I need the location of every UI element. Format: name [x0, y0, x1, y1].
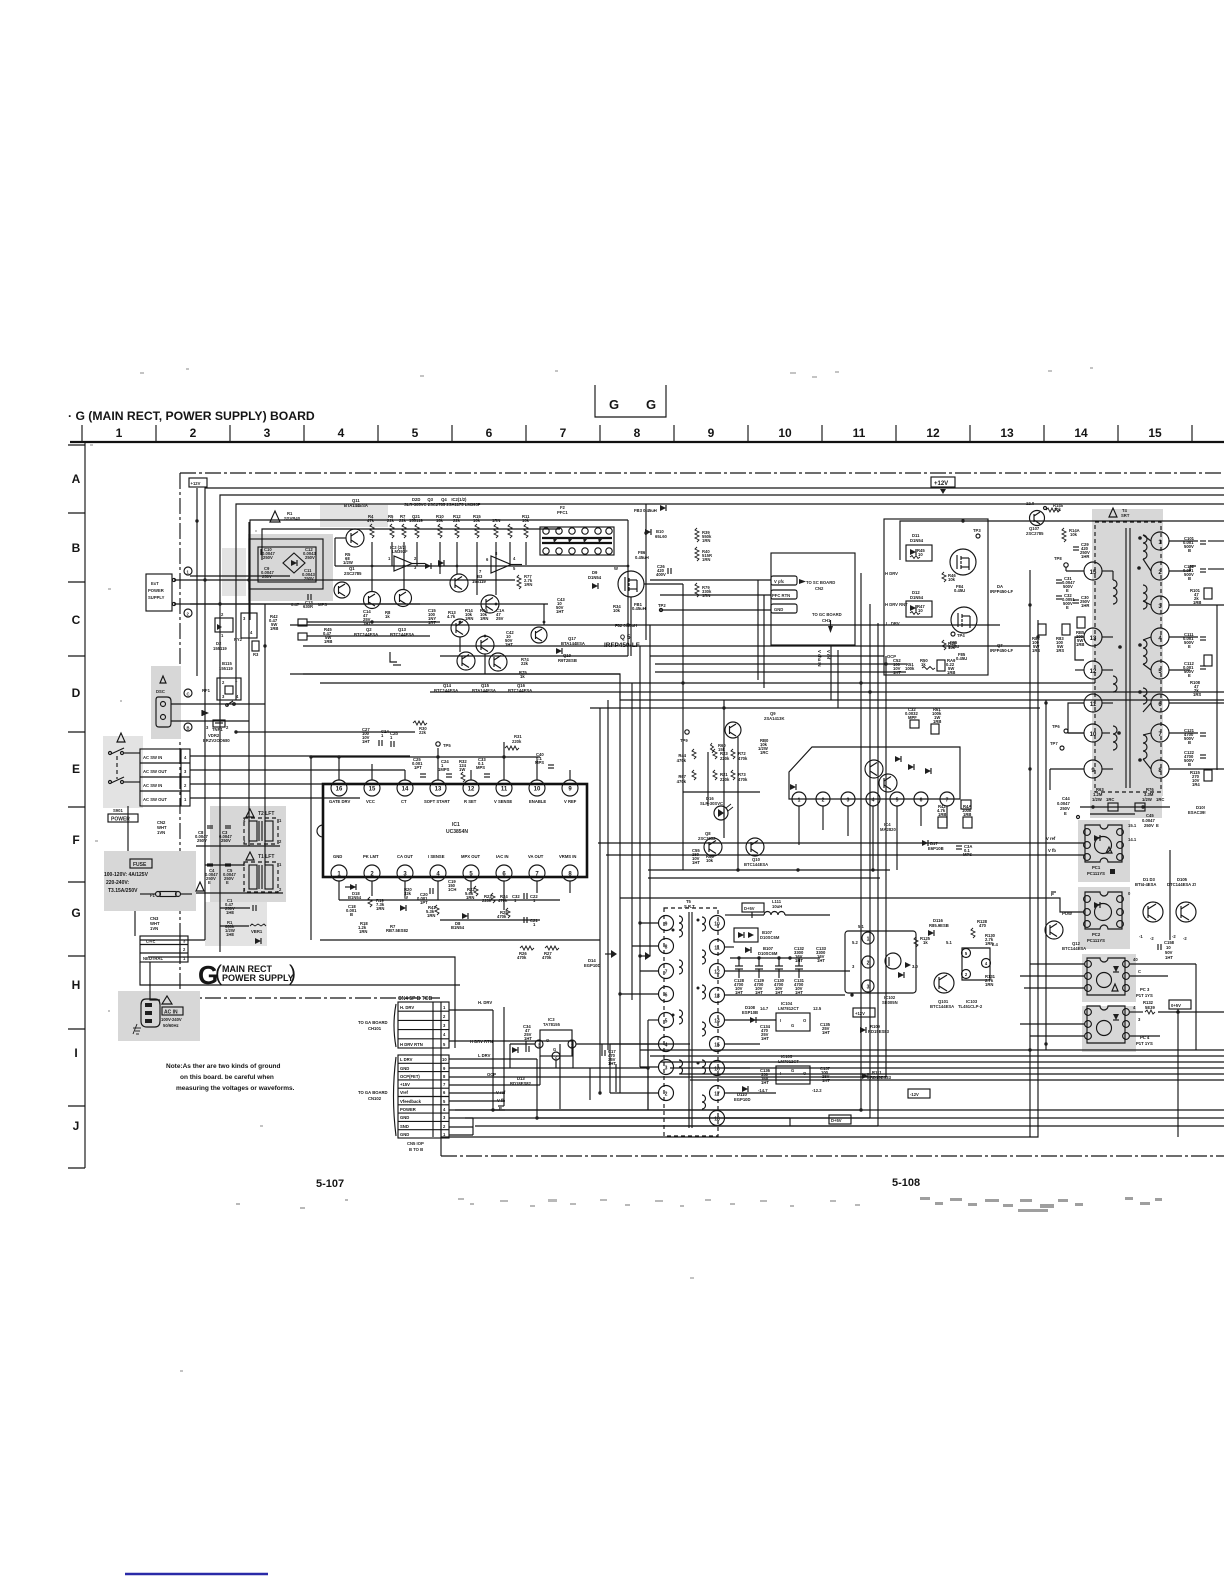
- svg-text:12.0: 12.0: [1026, 501, 1035, 506]
- svg-text:18k: 18k: [436, 518, 444, 523]
- transistor Q12 BTC144ESA: [1045, 921, 1086, 951]
- svg-text:22k: 22k: [453, 518, 461, 523]
- regulator IC103 TL451CLP-2: [946, 940, 998, 1009]
- svg-text:B: B: [1188, 548, 1191, 553]
- svg-text:1MPS: 1MPS: [438, 767, 450, 772]
- diode at T5 left: [640, 952, 651, 960]
- svg-text:E: E: [226, 880, 229, 885]
- wire secondary rails: [725, 915, 850, 1126]
- svg-text:50/60Hz: 50/60Hz: [163, 1023, 179, 1028]
- svg-text:10: 10: [918, 608, 923, 613]
- resistor R77: [517, 574, 533, 589]
- svg-text:W: W: [404, 895, 408, 900]
- capacitor C27 C26 above IC1: [362, 727, 398, 747]
- capacitor C5: [223, 864, 236, 885]
- svg-text:10: 10: [442, 1057, 447, 1062]
- ground stub: [390, 652, 401, 665]
- svg-text:2: 2: [665, 1092, 668, 1098]
- svg-text:PK LMT: PK LMT: [363, 854, 379, 859]
- svg-text:1RB: 1RB: [270, 626, 278, 631]
- diode D18 B1N54: [348, 884, 362, 900]
- node C circled: [184, 689, 192, 697]
- svg-text:22k: 22k: [521, 661, 529, 666]
- svg-text:1HE: 1HE: [226, 910, 234, 915]
- svg-text:D: D: [72, 686, 81, 700]
- svg-text:V fb: V fb: [1048, 848, 1056, 853]
- svg-text:I: I: [780, 1018, 781, 1023]
- resistor R30: [413, 721, 427, 735]
- IC1 top pin labels: [329, 799, 577, 804]
- svg-text:R85.9ESB: R85.9ESB: [929, 923, 949, 928]
- MOSFET Q7: [951, 607, 977, 633]
- label +12V right: [931, 477, 955, 494]
- svg-text:TL451CLP-2: TL451CLP-2: [958, 1004, 983, 1009]
- capacitor C12: [303, 547, 316, 560]
- svg-text:470k: 470k: [738, 777, 748, 782]
- svg-text:470k: 470k: [542, 955, 552, 960]
- resistor column R44 R23 R72: [677, 749, 748, 763]
- T5 right pin 17: [710, 1086, 725, 1101]
- transistor Q8 2SC3632: [698, 831, 722, 856]
- svg-text:TP4: TP4: [957, 633, 965, 638]
- svg-text:E: E: [72, 762, 80, 776]
- small caps and labels row: [363, 597, 565, 626]
- label +12V boxed: [853, 1008, 875, 1017]
- svg-text:18: 18: [714, 1117, 720, 1123]
- wire dsc 2: [171, 720, 249, 722]
- svg-text:3: 3: [867, 985, 870, 991]
- svg-text:10: 10: [918, 552, 923, 557]
- svg-text:G: G: [791, 1068, 794, 1073]
- svg-text:14.1: 14.1: [1128, 837, 1137, 842]
- resistor R74 R75: [519, 657, 529, 679]
- shade: R1 SSVB40 label area: [320, 505, 388, 527]
- svg-text:IRFP450-LF: IRFP450-LF: [990, 589, 1013, 594]
- label Q103 BTC144ESA: [1135, 877, 1156, 887]
- capacitor C158: [1158, 940, 1175, 960]
- capacitor C134: [760, 1024, 771, 1041]
- svg-text:AC IN: AC IN: [164, 1010, 178, 1016]
- CN3 vertical text: [150, 916, 160, 931]
- svg-text:6: 6: [665, 993, 668, 999]
- svg-text:1RN: 1RN: [359, 929, 367, 934]
- transistor Q4: [481, 595, 499, 613]
- svg-text:V REF: V REF: [564, 799, 577, 804]
- wire: top bus 4 right: [900, 521, 1224, 560]
- T5 right pin 10: [710, 916, 725, 931]
- svg-text:MPS: MPS: [476, 765, 485, 770]
- svg-text:5E39: 5E39: [1145, 1005, 1155, 1010]
- svg-text:65L60: 65L60: [655, 534, 668, 539]
- svg-text:1HT: 1HT: [822, 1078, 830, 1083]
- svg-text:12: 12: [714, 970, 720, 976]
- IC1 UC3854N body: [317, 784, 587, 877]
- svg-text:220-240V:: 220-240V:: [106, 880, 129, 886]
- svg-text:FB3 0.45uH: FB3 0.45uH: [634, 508, 657, 513]
- svg-text:B: B: [72, 541, 81, 555]
- svg-text:MPS: MPS: [535, 760, 544, 765]
- wires T1/T2 region: [196, 846, 283, 926]
- transformer T5 core: [689, 912, 692, 1128]
- svg-text:1RN: 1RN: [524, 582, 532, 587]
- resistor R39: [695, 528, 712, 543]
- transistor Q1: [334, 582, 350, 598]
- H DRV interface block: [884, 519, 988, 675]
- resistor row R4..R15: [367, 514, 530, 538]
- svg-text:V SENSE: V SENSE: [494, 799, 512, 804]
- test point TP3: [973, 528, 981, 538]
- regulator IC104 LM7812CT: [760, 1001, 822, 1031]
- CN102 connector table: [394, 1055, 450, 1152]
- svg-text:I: I: [780, 1071, 781, 1076]
- svg-text:ENABLE: ENABLE: [529, 799, 546, 804]
- capacitor C19: [448, 879, 456, 892]
- svg-text:6: 6: [486, 426, 493, 440]
- board outline dash-dot bottom-left: [180, 997, 440, 999]
- svg-text:10: 10: [1090, 732, 1097, 738]
- svg-text:11: 11: [853, 426, 866, 440]
- svg-text:B: B: [350, 912, 353, 917]
- svg-text:D10SC6M: D10SC6M: [760, 935, 780, 940]
- svg-text:TO GC BOARD: TO GC BOARD: [812, 612, 842, 617]
- svg-text:0.45U: 0.45U: [956, 656, 967, 661]
- resistor RB0: [758, 738, 769, 755]
- svg-text:LM7812CT: LM7812CT: [778, 1006, 799, 1011]
- T5 right pin 15: [710, 1037, 725, 1052]
- svg-text:15.1: 15.1: [1128, 823, 1137, 828]
- svg-text:1HT: 1HT: [556, 609, 564, 614]
- AC IN connector: [141, 996, 183, 1028]
- warning triangle T4: [1109, 508, 1130, 518]
- shade: AC IN area: [118, 991, 200, 1041]
- resistor R130: [985, 933, 996, 946]
- svg-text:40: 40: [1133, 957, 1138, 962]
- svg-text:POWER: POWER: [400, 1107, 416, 1112]
- svg-text:V pfc: V pfc: [774, 579, 785, 584]
- svg-text:P1T 1YS: P1T 1YS: [1136, 993, 1153, 998]
- diode D13 RD18ES82: [510, 1076, 532, 1086]
- svg-text:AC SW IN: AC SW IN: [143, 783, 162, 788]
- svg-text:1RN: 1RN: [985, 941, 993, 946]
- svg-text:PC111YS: PC111YS: [1087, 938, 1105, 943]
- T5 right pin 16: [710, 1061, 725, 1076]
- wire: EXT PS wire 2: [190, 603, 420, 605]
- TO SC BOARD box: [771, 553, 855, 645]
- wire: mid rail D: [320, 682, 1095, 684]
- RF1 block: [202, 678, 241, 706]
- svg-text:D1N54: D1N54: [588, 575, 602, 580]
- T5 right pin 14: [710, 1013, 725, 1028]
- IC4 wires: [648, 700, 947, 878]
- svg-text:CH1: CH1: [822, 618, 831, 623]
- label PC1 PC111YS: [1087, 865, 1115, 876]
- svg-text:10k: 10k: [1070, 532, 1078, 537]
- svg-text:2SC3632: 2SC3632: [698, 836, 716, 841]
- resistor R14A: [1062, 528, 1080, 542]
- resistor R24: [498, 894, 520, 903]
- wires AC SW to right: [190, 756, 410, 798]
- svg-text:TP7: TP7: [1050, 741, 1058, 746]
- svg-text:DSC: DSC: [156, 689, 165, 694]
- diode D8 B1N54: [451, 913, 468, 930]
- wire: ac-in leads: [150, 962, 160, 1000]
- svg-text:-12V: -12V: [910, 1092, 919, 1097]
- svg-text:T2 LFT: T2 LFT: [258, 811, 274, 817]
- bottom-left blue mark: [125, 1573, 268, 1575]
- svg-text:1W: 1W: [459, 767, 465, 772]
- label Q6 IRFP450-LF: [990, 584, 1013, 594]
- svg-text:4: 4: [338, 426, 345, 440]
- T4 right pin 1: [1151, 532, 1169, 550]
- bridge rectifier D1 diamond: [283, 553, 305, 573]
- svg-text:3: 3: [665, 1066, 668, 1072]
- resistor R25: [497, 908, 510, 919]
- rectifier B107 D10SC6M: [734, 928, 780, 942]
- warning triangle R1: [270, 511, 301, 522]
- diode D2D row small: [425, 560, 444, 569]
- right edge capacitor C112: [1183, 661, 1206, 678]
- svg-text:GATE DRV: GATE DRV: [329, 799, 350, 804]
- svg-text:1VN: 1VN: [157, 830, 165, 835]
- svg-text:+12V: +12V: [191, 481, 201, 486]
- test point TP5: [436, 742, 452, 748]
- resistor R21b: [426, 905, 439, 918]
- svg-text:D+5V: D+5V: [831, 1118, 842, 1123]
- capacitor C10: [261, 547, 275, 560]
- svg-text:4: 4: [872, 798, 875, 804]
- right edge resistor R108: [1190, 655, 1212, 697]
- svg-text:VBR1: VBR1: [251, 929, 263, 934]
- svg-text:H DRV RTN: H DRV RTN: [400, 1042, 423, 1047]
- svg-text:MPX OUT: MPX OUT: [461, 854, 481, 859]
- wire above IC1: [236, 732, 540, 940]
- capacitor C45: [1142, 813, 1159, 828]
- capacitor C31: [1056, 576, 1075, 593]
- svg-text:CN2: CN2: [815, 586, 824, 591]
- label +12V left: [189, 478, 207, 676]
- diode R109 RD15ES83: [860, 1024, 890, 1034]
- label Q2 Q13: [354, 627, 414, 637]
- wire: bottom bus 3: [475, 1125, 1224, 1127]
- right edge capacitor C121: [1184, 728, 1206, 745]
- svg-text:1PT: 1PT: [414, 765, 422, 770]
- switch S901 half1: [109, 748, 141, 755]
- right edge resistor R115: [1190, 770, 1212, 787]
- svg-text:22k: 22k: [399, 518, 407, 523]
- diode D104 ESAC39: [1188, 805, 1206, 815]
- svg-text:13: 13: [1000, 426, 1014, 440]
- svg-text:470k: 470k: [517, 955, 527, 960]
- MOSFET Q6: [950, 549, 976, 575]
- transformer T4 core: [1126, 528, 1130, 788]
- T4 right pin 3: [1151, 596, 1169, 614]
- svg-text:CT: CT: [401, 799, 407, 804]
- svg-text:1HT: 1HT: [795, 958, 803, 963]
- capacitor C3A: [956, 844, 972, 857]
- svg-text:UC3854N: UC3854N: [446, 829, 468, 835]
- svg-text:1RN: 1RN: [492, 518, 500, 523]
- T5 left pin 4: [659, 1037, 674, 1052]
- svg-text:B1N54: B1N54: [348, 895, 362, 900]
- svg-text:B TO B: B TO B: [409, 1147, 423, 1152]
- svg-text:7: 7: [665, 970, 668, 976]
- T4 polarity dots: [1117, 536, 1142, 762]
- label D+5V top: [742, 903, 764, 918]
- capacitor C32b: [1056, 593, 1075, 610]
- wire: long vertical x1038: [1037, 620, 1039, 1090]
- svg-text:1PT: 1PT: [420, 900, 428, 905]
- svg-text:470: 470: [979, 923, 987, 928]
- svg-text:5-108: 5-108: [892, 1177, 920, 1189]
- T4 secondary windings: [1143, 535, 1147, 759]
- resistor R31: [505, 734, 522, 750]
- T4 right pin 7: [1151, 724, 1169, 742]
- svg-text:1HT: 1HT: [761, 1036, 769, 1041]
- voltage regulator IC3 TA78155: [535, 1017, 576, 1060]
- wires PC3 PC4: [1020, 964, 1224, 1050]
- svg-text:BTC144ESA: BTC144ESA: [744, 862, 768, 867]
- svg-text:15: 15: [1090, 570, 1097, 576]
- svg-text:220k: 220k: [512, 739, 522, 744]
- wire: EXT PS wire 1: [190, 575, 290, 577]
- T4 pin connection wires: [1102, 535, 1151, 769]
- shade: FUSE area: [104, 851, 196, 911]
- resistor R60: [711, 743, 727, 753]
- svg-text:I: I: [74, 1046, 77, 1060]
- svg-text:11: 11: [714, 946, 720, 952]
- svg-text:PC111YS: PC111YS: [1087, 871, 1105, 876]
- wire: mid rail C: [290, 674, 1224, 700]
- svg-text:PC 3: PC 3: [1140, 987, 1150, 992]
- vertical labels V cha IN / V ref: [817, 650, 831, 667]
- T4 left pin 15: [1084, 562, 1102, 580]
- switch S901 half2: [109, 777, 141, 784]
- IC4 MA2820 body: [789, 747, 960, 832]
- svg-text:VA OUT: VA OUT: [528, 854, 544, 859]
- svg-text:LIVE: LIVE: [146, 939, 156, 944]
- svg-text:2: 2: [867, 961, 870, 967]
- svg-text:SE005N: SE005N: [882, 1000, 898, 1005]
- label -12V boxed: [908, 1089, 930, 1098]
- svg-text:GND: GND: [400, 1132, 409, 1137]
- label D+5V right: [1169, 1000, 1191, 1137]
- wire: top bus 2: [220, 495, 1224, 952]
- resistor R40: [695, 547, 712, 562]
- label Q14 Q15 Q16 row: [434, 683, 532, 693]
- svg-text:R3: R3: [253, 652, 259, 657]
- svg-text:155119: 155119: [213, 646, 227, 651]
- wire: mid rail B: [303, 645, 1030, 647]
- resistor R42 boxed pair: [269, 614, 332, 644]
- CN4 connector table: [394, 996, 449, 1048]
- svg-text:OCP: OCP: [487, 1072, 496, 1077]
- svg-text:1RS: 1RS: [1056, 648, 1064, 653]
- CN2 vertical text: [157, 820, 167, 835]
- shade: PC3: [1082, 954, 1136, 1002]
- resistor R48: [942, 640, 967, 661]
- svg-text:BTC144ESA: BTC144ESA: [930, 1004, 954, 1009]
- svg-text:G: G: [791, 1023, 794, 1028]
- diode D107 D10SC6M label: [745, 946, 778, 956]
- diode D9 D1N54: [588, 570, 602, 589]
- label V ref / V fb / P / POW near PC row: [1046, 836, 1072, 916]
- label Q17 BTA144ESA: [561, 636, 585, 646]
- svg-text:F82 0.45uH: F82 0.45uH: [615, 623, 637, 628]
- svg-text:H: H: [72, 978, 81, 992]
- wires below IC1: [320, 887, 600, 940]
- svg-text:0.45uH: 0.45uH: [635, 555, 649, 560]
- svg-text:IRFP450-LF: IRFP450-LF: [604, 642, 640, 649]
- optocoupler PC1: [1084, 823, 1137, 862]
- thermistor TNP1: [206, 720, 229, 732]
- svg-text:17: 17: [714, 1092, 720, 1098]
- caps row above IC1: [412, 757, 490, 782]
- svg-text:C: C: [72, 613, 81, 627]
- svg-text:BTA144ESA: BTA144ESA: [344, 503, 368, 508]
- board outline dash-dot top: [180, 472, 1224, 474]
- T4 right pin stub wires: [1169, 541, 1224, 770]
- svg-text:G: G: [646, 397, 656, 412]
- svg-text:RD18ES82: RD18ES82: [510, 1081, 532, 1086]
- resistor R125: [914, 936, 931, 947]
- wire: pow rail: [620, 898, 1084, 912]
- node pin 1 circled: [184, 567, 192, 575]
- svg-text:1RN: 1RN: [427, 913, 435, 918]
- svg-text:TO SC BOARD: TO SC BOARD: [806, 580, 835, 585]
- ground symbol AC IN: [133, 1024, 141, 1034]
- wire: v-ref rail: [598, 842, 1084, 844]
- svg-text:13: 13: [435, 787, 442, 793]
- capacitor C29: [1073, 542, 1090, 559]
- svg-text:TO GA BOARD: TO GA BOARD: [358, 1020, 388, 1025]
- svg-text:CN4 5P B TOB: CN4 5P B TOB: [398, 996, 433, 1002]
- svg-text:6: 6: [920, 798, 923, 804]
- capacitor C4: [205, 864, 218, 885]
- capacitor C44: [1057, 796, 1080, 819]
- capacitor C40: [535, 752, 554, 768]
- svg-text:4: 4: [665, 1043, 668, 1049]
- svg-text:E: E: [208, 880, 211, 885]
- T5 right pin 18: [710, 1111, 725, 1126]
- transistor Q3: [450, 574, 468, 592]
- svg-text:1HT: 1HT: [822, 1030, 830, 1035]
- svg-text:SSVB40: SSVB40: [284, 516, 301, 521]
- svg-text:5.2: 5.2: [852, 940, 858, 945]
- svg-text:100V-240V: 100V-240V: [161, 1017, 182, 1022]
- label Q5 IRFP450-LF: [604, 634, 640, 649]
- capacitor C26: [656, 564, 671, 577]
- svg-text:0.47: 0.47: [291, 602, 300, 607]
- svg-text:J: J: [73, 1119, 80, 1133]
- resistor R20: [404, 887, 412, 900]
- svg-text:IAC IN: IAC IN: [496, 854, 509, 859]
- svg-text:1k: 1k: [385, 614, 390, 619]
- svg-text:IRFP450-LF: IRFP450-LF: [990, 648, 1013, 653]
- svg-text:H. DRV: H. DRV: [400, 1005, 414, 1010]
- IC4 pins 1..7: [792, 792, 954, 806]
- right edge resistor R101: [1190, 588, 1212, 605]
- diode D108 ESP10B: [742, 1005, 758, 1023]
- svg-text:1HT: 1HT: [775, 990, 783, 995]
- svg-text:Q 5: Q 5: [620, 634, 631, 641]
- transistor Q10 BTC144ESA: [744, 838, 768, 867]
- svg-text:1/2W: 1/2W: [343, 560, 353, 565]
- svg-text:4.7k: 4.7k: [447, 614, 456, 619]
- wire: top bus 4 left: [250, 520, 628, 620]
- transformer T4 dashed body: [1095, 522, 1161, 792]
- svg-text:100k: 100k: [905, 666, 915, 671]
- svg-text:SLR-30SVC: SLR-30SVC: [700, 801, 723, 806]
